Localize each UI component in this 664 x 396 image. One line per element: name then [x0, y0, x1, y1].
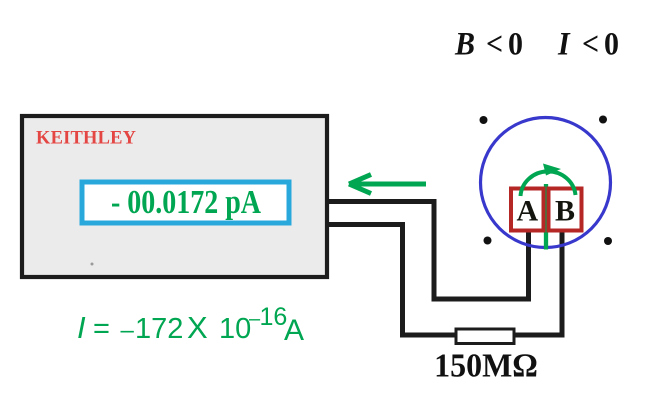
svg-text:0: 0	[604, 25, 619, 62]
mounting dot bottom-left	[484, 237, 492, 245]
svg-text:<: <	[486, 25, 503, 62]
svg-text:10: 10	[219, 313, 251, 345]
wire from ammeter through resistor to terminal B	[329, 225, 562, 336]
svg-text:A: A	[516, 195, 538, 228]
mounting dot top-right	[599, 116, 607, 124]
green axis line	[544, 184, 548, 250]
mounting dot top-left	[480, 116, 488, 124]
svg-text:=: =	[93, 313, 110, 345]
svg-text:–16: –16	[249, 303, 287, 331]
svg-text:B: B	[454, 25, 475, 62]
mounting dot bottom-right	[604, 237, 612, 245]
coil circle	[481, 118, 611, 248]
svg-text:A: A	[284, 314, 304, 347]
terminal B	[549, 189, 582, 231]
label B&lt;0 I&lt;0	[454, 25, 619, 62]
svg-text:I: I	[557, 25, 571, 62]
svg-text:- 00.0172 pA: - 00.0172 pA	[111, 183, 262, 221]
current formula I = -172 x 10^-16 A	[77, 303, 304, 347]
speck on panel	[91, 263, 94, 266]
svg-text:B: B	[555, 195, 575, 228]
svg-text:I: I	[77, 310, 86, 345]
svg-text:172: 172	[135, 313, 183, 345]
svg-text:<: <	[582, 25, 599, 62]
green current arrow	[349, 175, 426, 194]
wire from ammeter to terminal A	[329, 202, 529, 300]
resistor R1	[456, 329, 514, 344]
display D1	[82, 182, 289, 223]
svg-text:0: 0	[508, 25, 523, 62]
rotation arrow arc	[521, 164, 576, 197]
svg-text:X: X	[187, 310, 208, 345]
terminal A	[511, 189, 544, 231]
ammeter KEITHLEY box	[22, 116, 327, 277]
svg-text:–: –	[121, 317, 135, 344]
svg-text:150MΩ: 150MΩ	[434, 348, 538, 385]
svg-text:KEITHLEY: KEITHLEY	[36, 127, 136, 149]
